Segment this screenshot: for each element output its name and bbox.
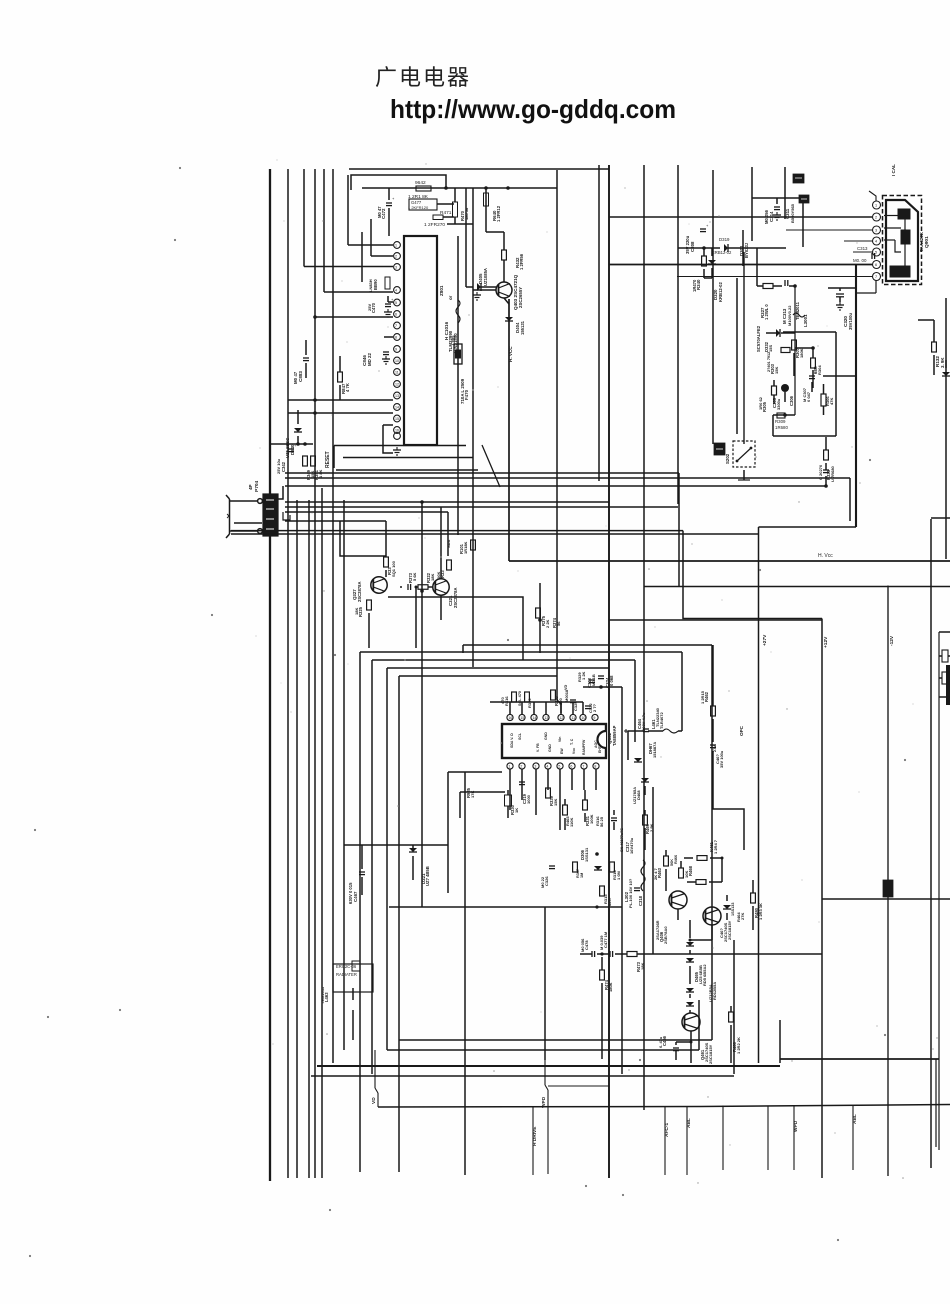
wire — [652, 787, 654, 954]
svg-text:0. 47u: 0. 47u — [658, 1036, 663, 1048]
capacitor C322 — [585, 705, 591, 707]
base parts — [407, 584, 409, 590]
capacitor C335 — [823, 469, 829, 471]
wire — [440, 507, 442, 579]
svg-text:7: 7 — [875, 275, 877, 279]
svg-text:TLR4072: TLR4072 — [659, 712, 664, 729]
svg-text:R466: R466 — [674, 855, 678, 864]
connector P704 pin circles — [258, 499, 263, 504]
svg-text:9: 9 — [395, 348, 397, 352]
svg-text:7: 7 — [582, 765, 584, 769]
svg-text:470: 470 — [500, 697, 505, 704]
wire — [583, 686, 622, 688]
svg-text:180K: 180K — [608, 982, 613, 992]
transistor Q403 — [496, 282, 512, 298]
svg-text:OPC: OPC — [739, 725, 744, 736]
wire — [736, 278, 738, 434]
wire — [399, 675, 557, 677]
wire — [285, 520, 386, 522]
diodes D465 — [686, 942, 694, 946]
svg-text:C342: C342 — [281, 461, 286, 472]
wire — [712, 170, 714, 444]
capacitor C472 — [386, 202, 392, 204]
svg-text:1 2R15: 1 2R15 — [700, 690, 705, 704]
ground — [396, 447, 398, 450]
svg-text:4P: 4P — [248, 484, 253, 490]
svg-text:151887A: 151887A — [652, 742, 657, 758]
svg-text:18K: 18K — [354, 608, 359, 615]
svg-text:25V 10u: 25V 10u — [276, 458, 281, 474]
svg-text:VD: VD — [564, 684, 568, 690]
svg-text:5: 5 — [558, 765, 560, 769]
wire — [314, 169, 316, 1178]
svg-text:9642: 9642 — [415, 180, 426, 186]
svg-text:M0 47: M0 47 — [293, 371, 298, 384]
cluster frame — [783, 331, 836, 333]
svg-text:6: 6 — [875, 263, 877, 267]
svg-text:5: 5 — [395, 301, 397, 305]
svg-text:3: 3 — [395, 266, 397, 270]
wire — [780, 1058, 939, 1060]
svg-text:V. FB: V. FB — [536, 743, 540, 752]
svg-text:UZ7 4B5B: UZ7 4B5B — [425, 866, 430, 886]
resistor R307 — [792, 340, 797, 350]
svg-text:47K: 47K — [829, 398, 834, 405]
svg-text:VD: VD — [371, 1097, 377, 1104]
resistor R327 — [763, 284, 773, 289]
svg-text:13: 13 — [395, 394, 399, 398]
capacitor C467 — [359, 871, 365, 873]
wire — [690, 1031, 692, 1042]
wire — [415, 587, 417, 648]
svg-text:M0.1B: M0.1B — [591, 674, 596, 686]
svg-text:TAA427K: TAA427K — [919, 231, 924, 252]
IC Q901 pins — [873, 201, 881, 209]
wire — [462, 645, 464, 653]
resistor R330b — [505, 795, 512, 806]
svg-text:12: 12 — [559, 716, 563, 720]
wire — [287, 169, 289, 1178]
svg-text:10: 10 — [395, 359, 399, 363]
capacitor C477 — [609, 951, 611, 957]
tag C270 — [883, 880, 893, 897]
wire +12V feed — [609, 619, 822, 621]
ground — [839, 302, 841, 305]
resistor R474 — [600, 970, 605, 980]
diode D468 — [641, 778, 649, 782]
resistor R325 — [367, 600, 372, 610]
wire — [384, 336, 393, 338]
wire — [473, 289, 496, 291]
resistor R642 — [416, 186, 431, 191]
wire — [343, 500, 345, 1050]
svg-text:12: 12 — [395, 383, 399, 387]
diode D1x — [942, 372, 950, 376]
wire thick HVcc — [509, 560, 950, 562]
svg-text:35V100u: 35V100u — [848, 313, 853, 330]
svg-text:1 0M: 1 0M — [616, 870, 621, 880]
wire — [347, 175, 349, 245]
wire diagonal — [482, 445, 500, 487]
wire — [677, 909, 679, 920]
wire — [340, 521, 386, 556]
svg-text:B500Y565: B500Y565 — [790, 203, 795, 223]
wire — [776, 198, 778, 204]
wire — [490, 701, 583, 703]
resistor R341 — [311, 456, 316, 466]
wire — [931, 517, 950, 519]
svg-text:H DRIVE: H DRIVE — [532, 1126, 538, 1146]
wire — [751, 167, 753, 241]
heatsink L463 box — [333, 964, 373, 992]
transistor Q321 — [433, 579, 449, 595]
wire — [773, 414, 795, 416]
svg-text:C883: C883 — [298, 371, 303, 382]
svg-text:M0. 00: M0. 00 — [853, 258, 867, 263]
wire — [887, 586, 889, 1177]
svg-text:16: 16 — [395, 429, 399, 433]
wire — [557, 170, 561, 713]
svg-text:WPD: WPD — [793, 1120, 799, 1132]
wire — [457, 236, 459, 535]
resistor R309 — [777, 413, 785, 418]
wire — [230, 500, 257, 502]
svg-text:11: 11 — [571, 716, 575, 720]
wire — [386, 668, 388, 1050]
wire — [503, 232, 505, 250]
resistor R33 — [384, 557, 389, 567]
svg-text:+12V: +12V — [823, 636, 829, 648]
svg-text:SN 46177a?E: SN 46177a?E — [620, 828, 624, 852]
wire — [440, 595, 442, 620]
diode D306 — [594, 866, 602, 870]
svg-text:C467: C467 — [353, 891, 358, 902]
wire — [938, 632, 940, 1150]
wire — [277, 486, 283, 499]
svg-text:M0 056: M0 056 — [580, 938, 585, 952]
wire — [371, 660, 373, 1074]
svg-text:4: 4 — [875, 240, 877, 244]
wire — [372, 659, 635, 661]
svg-text:M0 47: M0 47 — [377, 206, 382, 218]
wire — [339, 356, 341, 372]
wire — [802, 203, 804, 247]
capacitor C470 — [385, 303, 391, 305]
resistor right2 — [942, 672, 948, 684]
svg-text:2 7?: 2 7? — [592, 703, 597, 712]
svg-text:56K: 56K — [670, 859, 674, 866]
svg-text:14: 14 — [532, 716, 536, 720]
svg-text:RESET: RESET — [325, 451, 331, 468]
svg-text:56: 56 — [556, 621, 561, 626]
tag VIDEO — [714, 443, 725, 455]
IC Q901 outer dashed — [883, 196, 922, 285]
svg-text:8: 8 — [395, 336, 397, 340]
ground — [385, 356, 387, 359]
svg-text:16: 16 — [508, 716, 512, 720]
wire — [360, 651, 682, 653]
svg-text:14: 14 — [395, 406, 399, 410]
resistor R469 — [643, 815, 648, 825]
svg-text:BY033J: BY033J — [744, 242, 749, 258]
svg-text:UZ5.6BSC: UZ5.6BSC — [285, 438, 290, 458]
wire — [539, 583, 541, 653]
wire — [285, 472, 679, 474]
component G477 — [409, 199, 437, 210]
svg-text:56 25: 56 25 — [599, 816, 604, 827]
capacitor C326 — [549, 865, 555, 867]
resistor R340 — [702, 256, 707, 266]
wire — [609, 216, 872, 218]
resistor R320 — [551, 690, 556, 700]
svg-text:2SB?8A0: 2SB?8A0 — [663, 926, 668, 944]
svg-text:GND: GND — [548, 744, 552, 752]
wire — [621, 687, 623, 1074]
wire — [388, 597, 523, 660]
svg-text:RAMPFW: RAMPFW — [582, 739, 586, 755]
svg-text:1: 1 — [395, 244, 397, 248]
svg-text:C308: C308 — [690, 241, 695, 252]
wire — [609, 264, 872, 266]
diode D404 — [505, 317, 513, 321]
svg-text:100K: 100K — [589, 814, 594, 824]
IC Q302 body — [502, 724, 606, 758]
wire — [726, 895, 728, 901]
svg-text:110K: 110K — [569, 818, 574, 827]
wire — [794, 286, 796, 415]
svg-text:1 2WL 0: 1 2WL 0 — [764, 304, 769, 320]
wire — [465, 188, 467, 287]
svg-text:-12V: -12V — [889, 635, 895, 646]
svg-text:M0 22: M0 22 — [540, 876, 545, 888]
ground — [476, 292, 478, 295]
wire Q403 emitter rail — [508, 299, 510, 561]
resistor R465 — [563, 805, 568, 815]
wire — [359, 652, 361, 1172]
svg-text:9: 9 — [593, 716, 595, 720]
wire — [793, 353, 795, 376]
capacitor C308 — [700, 228, 706, 230]
wire — [644, 586, 950, 588]
svg-text:R319: R319 — [527, 698, 532, 708]
wire — [348, 244, 393, 246]
wire — [507, 790, 509, 795]
diode DH67 — [634, 758, 642, 762]
resistor R33b — [447, 560, 452, 570]
wire — [288, 399, 393, 401]
resistor right1 — [942, 650, 948, 662]
wire — [930, 519, 932, 1168]
svg-text:630V 0 015: 630V 0 015 — [348, 882, 353, 904]
svg-text:http://www.go-gddq.com: http://www.go-gddq.com — [390, 94, 676, 124]
svg-text:C318: C318 — [638, 895, 643, 906]
wire — [509, 790, 511, 810]
wire H rail — [855, 265, 857, 528]
wire +27V rail — [758, 527, 760, 1063]
svg-text:AFC-1: AFC-1 — [664, 1123, 670, 1137]
svg-text:TEM2011: TEM2011 — [795, 301, 800, 320]
svg-text:D319: D319 — [719, 237, 730, 242]
diode D46a — [723, 905, 731, 909]
coil L302 — [641, 860, 645, 891]
svg-text:2SA1726R: 2SA1726R — [655, 920, 660, 940]
wire — [305, 340, 307, 355]
wire — [231, 530, 683, 532]
IC Q901 internal blocks — [898, 209, 910, 219]
wire — [677, 276, 872, 278]
wire — [349, 168, 609, 170]
svg-text:I CAL: I CAL — [891, 164, 896, 176]
resistor R315 — [600, 886, 605, 896]
svg-text:KRB12-02: KRB12-02 — [718, 282, 723, 302]
transistor Q46x — [703, 907, 721, 925]
svg-text:3. 9K: 3. 9K — [940, 357, 945, 368]
capacitor C883 — [303, 357, 309, 359]
resistor R314 — [610, 862, 615, 872]
svg-text:2: 2 — [520, 765, 522, 769]
coil L461 — [663, 729, 678, 733]
svg-text:UZ1085A: UZ1085A — [483, 268, 488, 286]
wire — [839, 288, 841, 291]
svg-text:SQ1 100: SQ1 100 — [391, 560, 396, 577]
svg-text:MD 22: MD 22 — [367, 353, 372, 366]
resistor R319 — [525, 692, 530, 702]
resistor R339 — [546, 788, 551, 798]
wire VD jog — [374, 1050, 376, 1088]
resistor R466 — [679, 868, 684, 878]
wire — [743, 470, 745, 480]
svg-text:1 2FR270: 1 2FR270 — [424, 222, 445, 228]
capacitor C461 — [710, 744, 716, 746]
wire — [371, 255, 393, 257]
wire — [368, 613, 370, 648]
wire — [757, 285, 763, 287]
svg-text:5: 5 — [875, 251, 877, 255]
wire — [945, 360, 947, 368]
capacitor C320 — [836, 293, 844, 295]
wire — [315, 316, 393, 318]
wire — [297, 410, 299, 424]
svg-text:2SC2878A: 2SC2878A — [357, 582, 362, 603]
capacitor C313b — [784, 280, 786, 286]
svg-text:1R0 62: 1R0 62 — [758, 396, 763, 410]
wire — [628, 730, 644, 732]
svg-text:C306: C306 — [789, 395, 794, 406]
svg-text:2: 2 — [875, 216, 877, 220]
diodes D461 — [686, 988, 694, 992]
svg-text:SCL: SCL — [518, 732, 522, 740]
svg-text:GND: GND — [544, 732, 548, 740]
wire — [324, 291, 393, 293]
svg-text:2SC2655Y: 2SC2655Y — [518, 287, 523, 308]
wire — [677, 165, 679, 504]
svg-text:3: 3 — [875, 229, 877, 233]
switch S202 box — [733, 441, 755, 467]
resistor R306 — [821, 394, 826, 406]
wire — [317, 1065, 780, 1067]
svg-text:T. C: T. C — [570, 738, 574, 745]
tag PH1 — [793, 174, 804, 183]
wire bottom stubs — [532, 1107, 534, 1175]
svg-text:3: 3 — [534, 765, 536, 769]
svg-text:1 2R4 7: 1 2R4 7 — [713, 839, 718, 854]
wire — [387, 1049, 699, 1051]
diode D321 — [409, 848, 417, 852]
ground Z801 bottom pin — [394, 433, 401, 440]
wire — [459, 792, 461, 818]
resistor R473 — [627, 952, 637, 957]
svg-text:2: 2 — [395, 255, 397, 259]
svg-text:180K: 180K — [799, 348, 804, 358]
svg-text:U 7R680: U 7R680 — [830, 465, 835, 482]
svg-text:WPD: WPD — [541, 1096, 547, 1108]
svg-text:C46?: C46? — [719, 928, 724, 938]
wire — [285, 485, 826, 487]
svg-text:S202: S202 — [725, 453, 730, 464]
resistor R335 — [824, 450, 829, 460]
switch S202 contact — [737, 448, 751, 461]
wire — [712, 645, 714, 706]
wire — [269, 169, 271, 1181]
svg-text:UZ1785A: UZ1785A — [632, 787, 637, 804]
svg-text:1 2FR56: 1 2FR56 — [519, 253, 524, 270]
diode D319 — [724, 244, 728, 252]
wire — [485, 188, 487, 232]
wire — [665, 850, 667, 856]
wire — [362, 187, 557, 189]
wire — [323, 169, 325, 292]
resistor R461 — [697, 856, 707, 861]
capacitor C464 — [643, 728, 649, 730]
svg-text:2 9K: 2 9K — [649, 823, 654, 832]
wire — [509, 702, 511, 714]
wire — [678, 247, 720, 249]
svg-text:13: 13 — [544, 716, 548, 720]
capacitor C323 — [589, 679, 595, 681]
svg-text:4: 4 — [546, 765, 548, 769]
svg-text:18K: 18K — [430, 574, 435, 581]
capacitor C317 — [611, 817, 617, 819]
svg-text:1K: 1K — [514, 808, 519, 813]
wire — [333, 446, 335, 469]
resistor R462 — [711, 706, 716, 716]
wire — [730, 1025, 732, 1063]
svg-text:ABL: ABL — [852, 1114, 858, 1124]
wire — [285, 501, 609, 503]
transistor Q406 — [669, 891, 687, 909]
wire — [853, 251, 872, 253]
wire — [270, 443, 313, 445]
IC Q302 top pins — [507, 714, 513, 720]
wire — [285, 506, 678, 508]
svg-text:1R470: 1R470 — [692, 279, 697, 292]
wire — [825, 437, 827, 450]
wire — [285, 477, 850, 479]
ground — [776, 212, 778, 215]
wire — [698, 1000, 700, 1050]
resistor R468 — [696, 880, 706, 885]
svg-text:C313: C313 — [857, 246, 868, 251]
wire — [509, 770, 511, 791]
svg-text:1R680: 1R680 — [775, 425, 788, 430]
svg-text:6: 6 — [395, 313, 397, 317]
svg-text:EHT: EHT — [598, 745, 602, 753]
svg-text:M100V0.22: M100V0.22 — [787, 305, 792, 326]
svg-text:RD12B5A: RD12B5A — [712, 982, 717, 1000]
svg-text:15S: 15S — [768, 345, 773, 352]
wire — [703, 248, 705, 256]
resistor R847 — [338, 372, 343, 382]
